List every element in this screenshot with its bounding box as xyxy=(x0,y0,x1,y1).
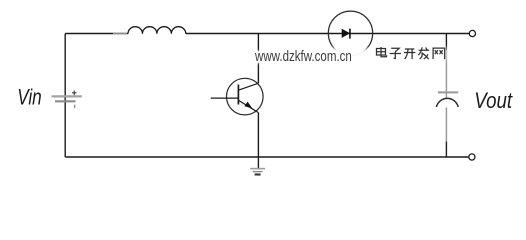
node output bottom terminal xyxy=(469,154,475,160)
svg-text:Vout: Vout xyxy=(474,89,513,113)
transistor Q emitter stroke xyxy=(238,100,258,112)
wire collector vertical xyxy=(257,34,259,84)
capacitor C (output) leads xyxy=(445,34,447,158)
transistor Q base bar xyxy=(237,85,239,105)
watermark text CJK 电子开发网 xyxy=(377,47,445,59)
wire left vertical xyxy=(64,34,66,158)
capacitor C plates xyxy=(436,92,458,107)
transistor Q emitter arrow xyxy=(244,102,252,109)
transistor Q collector stroke xyxy=(238,83,258,90)
svg-text:Vin: Vin xyxy=(17,86,42,111)
battery V1 (Vin source) xyxy=(52,91,82,109)
wire top left segment xyxy=(65,33,128,35)
wire emitter vertical xyxy=(257,113,259,157)
transistor Q base lead xyxy=(211,97,239,99)
transistor Q circle xyxy=(227,78,264,115)
wire bottom horizontal xyxy=(65,156,469,158)
node output top terminal xyxy=(469,30,475,36)
diode D cathode bar xyxy=(349,29,351,39)
diode D circle xyxy=(328,11,372,55)
watermark halo xyxy=(333,47,367,60)
wire top right segment xyxy=(186,33,470,35)
inductor L xyxy=(128,27,186,34)
wire ground stub xyxy=(257,157,259,168)
ground xyxy=(250,169,265,175)
diode D triangle xyxy=(342,29,349,37)
svg-text:www.dzkfw.com.cn: www.dzkfw.com.cn xyxy=(254,48,352,65)
